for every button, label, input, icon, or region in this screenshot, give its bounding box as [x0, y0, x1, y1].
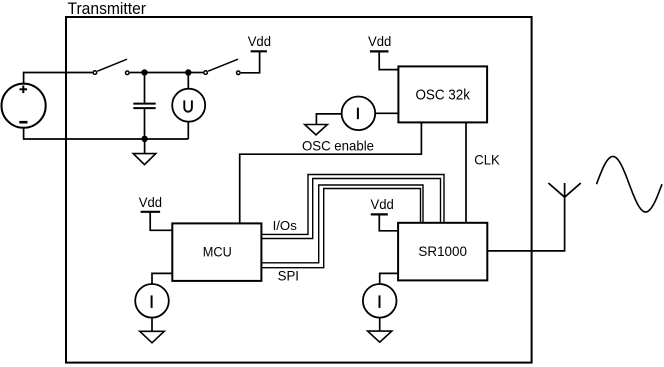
antenna ANT1 — [548, 183, 580, 197]
Vdd supply bar (SR1000) — [371, 213, 388, 215]
transmitter box border — [66, 17, 532, 363]
svg-text:Vdd: Vdd — [139, 195, 162, 210]
MCU box U2 — [172, 223, 261, 281]
wire source bottom rail — [24, 128, 189, 139]
svg-text:CLK: CLK — [474, 152, 500, 168]
Vdd supply bar (OSC) — [370, 50, 389, 52]
wire S2 to Vdd — [241, 51, 260, 73]
svg-text:MCU: MCU — [203, 244, 232, 260]
ammeter I (OSC) — [342, 97, 376, 131]
switch S2 — [204, 59, 240, 74]
svg-text:OSC 32k: OSC 32k — [415, 87, 470, 104]
wire ammeter to ground — [316, 114, 341, 125]
svg-text:I/Os: I/Os — [273, 218, 298, 233]
node B junction dot — [185, 69, 191, 75]
svg-text:Vdd: Vdd — [248, 34, 271, 49]
wire SR1000 RF out to antenna — [487, 197, 564, 251]
svg-text:Vdd: Vdd — [368, 34, 391, 49]
svg-text:SPI: SPI — [278, 268, 299, 284]
svg-text:Vdd: Vdd — [371, 197, 394, 212]
wire OSC enable (OSC pin to MCU top) — [240, 122, 422, 223]
ground (SR1000 ammeter) — [368, 331, 392, 342]
svg-text:Transmitter: Transmitter — [68, 0, 147, 18]
wire ammeter to ground — [379, 318, 381, 332]
bus wire 3 (SPI) — [261, 185, 423, 263]
wire MCU to ammeter — [152, 273, 172, 284]
voltmeter U — [172, 73, 205, 140]
wire S1 to node A — [130, 72, 145, 74]
wire SR1000 to ammeter — [380, 273, 398, 284]
ammeter I (MCU) — [135, 284, 169, 318]
bus wire 1 (I/O) — [261, 175, 444, 235]
ground (MCU ammeter) — [140, 331, 164, 343]
OSC 32k box U3 — [398, 66, 487, 122]
voltage source V1 — [2, 84, 46, 128]
wire ammeter to ground — [151, 318, 153, 332]
wire Vdd to MCU — [150, 212, 172, 231]
capacitor C1 — [133, 76, 155, 139]
node A junction dot — [141, 69, 147, 75]
ground (OSC ammeter) — [305, 125, 328, 135]
ammeter I (SR1000) — [363, 284, 397, 318]
wire node C to ground — [144, 139, 146, 154]
svg-text:OSC enable: OSC enable — [302, 139, 374, 154]
wire node A to node B — [145, 72, 189, 74]
switch S1 — [93, 59, 129, 74]
SR1000 box U4 — [398, 223, 487, 281]
Vdd supply bar (MCU) — [141, 211, 161, 213]
RF sine wave — [597, 156, 663, 212]
bus wire 4 (SPI) — [261, 189, 420, 268]
wire Vdd to SR1000 — [379, 214, 398, 230]
wire CLK (OSC pin to SR1000 top) — [465, 122, 467, 222]
bus wire 2 (I/O) — [261, 179, 440, 239]
svg-text:SR1000: SR1000 — [418, 244, 467, 260]
wire source top to switch S1 — [24, 73, 93, 84]
node C junction dot — [141, 136, 147, 142]
wire Vdd to OSC box — [379, 51, 398, 69]
wire ammeter to OSC box — [375, 112, 398, 114]
ground (below C1 node) — [133, 154, 156, 165]
Vdd supply bar (switch) — [251, 50, 267, 52]
wire node B to switch S2 — [188, 72, 203, 74]
